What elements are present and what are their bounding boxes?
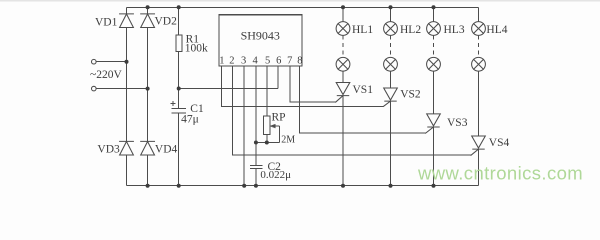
svg-text:VD4: VD4	[155, 144, 178, 156]
wire pin 1 to VS2 gate	[222, 66, 384, 106]
RP wiper lead	[271, 126, 279, 143]
node dot C1 bottom	[177, 184, 181, 188]
wire C1 node to pin 6	[179, 66, 278, 89]
wire lamp chain 1	[342, 7, 344, 185]
svg-text:8: 8	[297, 56, 302, 67]
node dot HL2 top	[389, 5, 393, 9]
IC U1 SH9043 box	[219, 15, 302, 66]
svg-text:VS3: VS3	[447, 117, 468, 129]
thyristor VS3	[426, 114, 441, 133]
lamp HL3 lower	[427, 57, 441, 71]
svg-text:1: 1	[219, 56, 224, 67]
node dot VD4 bottom	[146, 184, 150, 188]
wire RC node horizontal	[256, 142, 279, 144]
wire lamp chain 4	[478, 7, 480, 185]
wire pin 3 to ground bus	[243, 66, 245, 186]
wire VD2/VD4 column	[147, 7, 149, 185]
node dot HL3 top	[432, 5, 436, 9]
wire pin 5 to RP top	[266, 66, 268, 116]
lamp HL1 lower	[336, 57, 350, 71]
resistor R1 body	[176, 35, 182, 52]
faint top border	[0, 0, 600, 2]
lamp HL3	[427, 22, 441, 36]
wire AC line 1	[96, 61, 127, 63]
wire R1/C1 column	[178, 7, 180, 185]
node dot VD2 top	[146, 5, 150, 9]
svg-text:HL1: HL1	[352, 24, 373, 36]
node dot VS2 bottom	[389, 184, 393, 188]
svg-text:5: 5	[265, 56, 270, 67]
wire lamp chain 2	[390, 7, 392, 185]
svg-text:HL3: HL3	[444, 24, 465, 36]
wire pin 7 to VS1 gate	[290, 66, 336, 102]
node dot RC pin4	[254, 141, 258, 145]
wire pin 4 to RC node	[255, 66, 257, 143]
lamp HL4 lower	[472, 57, 486, 71]
capacitor C1 plates	[171, 108, 186, 113]
AC terminal 1	[92, 59, 97, 64]
svg-text:~220V: ~220V	[90, 69, 122, 81]
svg-text:HL4: HL4	[486, 24, 507, 36]
svg-text:SH9043: SH9043	[241, 29, 280, 43]
svg-text:VS1: VS1	[353, 84, 374, 96]
node dot AC2	[146, 87, 150, 91]
node dot VS1 bottom	[341, 184, 345, 188]
svg-text:47μ: 47μ	[181, 114, 199, 126]
thyristor VS1	[336, 83, 350, 103]
node dot AC1	[125, 60, 129, 64]
diode VD3	[120, 141, 134, 155]
svg-text:4: 4	[253, 56, 259, 67]
svg-text:3: 3	[241, 56, 246, 67]
node dot RP bottom	[265, 141, 269, 145]
lamp HL2	[384, 22, 398, 36]
lamp HL4	[472, 22, 486, 36]
thyristor VS2	[384, 88, 398, 106]
node dot pin3 bottom	[242, 184, 246, 188]
wire C2 column	[255, 143, 257, 186]
svg-text:7: 7	[287, 56, 292, 67]
dashed lamp links	[343, 35, 479, 57]
svg-text:VS2: VS2	[400, 89, 421, 101]
wire pin 8 to VS3 gate	[300, 66, 426, 133]
diode VD2	[141, 14, 155, 28]
wire VD1/VD3 column	[126, 7, 128, 185]
svg-text:www.cntronics.com: www.cntronics.com	[417, 163, 583, 184]
C1 plus sign	[170, 101, 175, 106]
node dot VS3 bottom	[432, 184, 436, 188]
node dot HL1 top	[341, 5, 345, 9]
potentiometer RP body	[263, 116, 270, 135]
svg-text:2: 2	[229, 56, 234, 67]
lamp HL1	[336, 22, 350, 36]
thyristor VS4	[471, 136, 485, 155]
svg-text:VS4: VS4	[489, 137, 510, 149]
RP wiper arrowhead	[270, 124, 275, 128]
svg-text:6: 6	[276, 56, 281, 67]
wire bottom bus	[127, 185, 479, 187]
node dot R1 top	[177, 5, 181, 9]
svg-text:HL2: HL2	[400, 24, 421, 36]
diode VD4	[141, 141, 155, 155]
capacitor C2 plates	[250, 165, 262, 168]
wire pin 2 to VS4 gate	[233, 66, 472, 155]
svg-text:VD2: VD2	[155, 16, 178, 28]
wire top bus	[127, 6, 479, 8]
diode VD1	[120, 14, 134, 28]
svg-text:VD3: VD3	[97, 144, 120, 156]
AC terminal 2	[92, 86, 97, 91]
node dot C2 bottom	[254, 184, 258, 188]
wire lamp chain 3	[433, 7, 435, 185]
node dot C1 top	[177, 87, 181, 91]
svg-text:VD1: VD1	[95, 17, 118, 29]
wire RP bottom lead	[266, 135, 268, 143]
wire AC line 2	[96, 88, 148, 90]
svg-text:RP: RP	[272, 112, 286, 124]
svg-text:100k: 100k	[185, 43, 208, 55]
svg-text:2M: 2M	[281, 135, 295, 146]
lamp HL2 lower	[384, 57, 398, 71]
svg-text:0.022μ: 0.022μ	[260, 169, 291, 181]
